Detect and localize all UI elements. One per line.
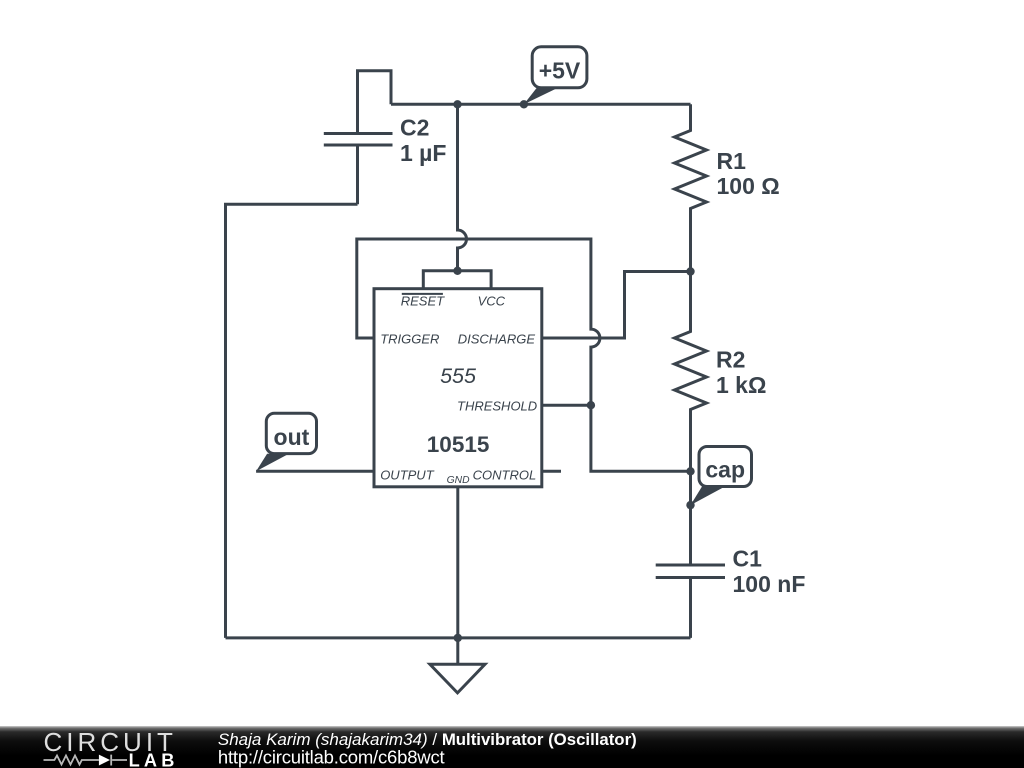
resistor R2 bbox=[675, 272, 707, 472]
node supply/VCC junction bbox=[453, 100, 461, 108]
node cap flag junction bbox=[686, 501, 694, 509]
wire bottom ground rail bbox=[226, 636, 691, 639]
capacitor C1 bbox=[656, 565, 725, 638]
svg-text:+5V: +5V bbox=[539, 58, 581, 84]
svg-text:C1: C1 bbox=[733, 546, 763, 572]
svg-text:cap: cap bbox=[705, 456, 745, 482]
wire cap node down to C1 bbox=[689, 471, 692, 565]
wire THRESHOLD stub bbox=[542, 404, 591, 407]
svg-text:100 Ω: 100 Ω bbox=[717, 173, 780, 199]
svg-text:10515: 10515 bbox=[427, 432, 490, 457]
svg-text:LAB: LAB bbox=[129, 750, 179, 768]
svg-text:CONTROL: CONTROL bbox=[473, 468, 537, 483]
wire DISCHARGE to R1/R2 junction bbox=[542, 272, 691, 339]
wire CONTROL stub bbox=[542, 470, 561, 473]
svg-text:R2: R2 bbox=[716, 347, 745, 373]
wire VCC drop from rail with hop over trigger wire bbox=[458, 104, 467, 270]
svg-text:555: 555 bbox=[440, 364, 477, 388]
svg-text:100 nF: 100 nF bbox=[733, 571, 806, 597]
svg-text:C2: C2 bbox=[400, 115, 429, 141]
svg-text:GND: GND bbox=[447, 475, 470, 486]
IC U1 555 timer box bbox=[374, 289, 542, 487]
cap flag bbox=[691, 447, 752, 506]
svg-text:OUTPUT: OUTPUT bbox=[380, 468, 435, 483]
svg-text:RESET: RESET bbox=[401, 294, 445, 309]
logo resistor-diode glyph bbox=[44, 755, 128, 766]
resistor R1 bbox=[675, 104, 707, 271]
svg-text:VCC: VCC bbox=[478, 294, 506, 309]
svg-text:R1: R1 bbox=[717, 148, 747, 174]
svg-text:DISCHARGE: DISCHARGE bbox=[458, 332, 536, 347]
wire GND pin to ground bbox=[456, 487, 459, 665]
svg-text:http://circuitlab.com/c6b8wct: http://circuitlab.com/c6b8wct bbox=[218, 747, 445, 768]
node cap/threshold junction bbox=[686, 467, 694, 475]
wire TRIGGER to THRESHOLD net with hop over discharge wire bbox=[357, 239, 691, 471]
+5V power flag bbox=[524, 47, 587, 105]
wire OUTPUT to out flag bbox=[256, 470, 374, 473]
node RESET/VCC bracket junction bbox=[453, 267, 461, 275]
svg-text:out: out bbox=[274, 424, 310, 450]
node R1/R2/discharge junction bbox=[686, 267, 694, 275]
wire left return loop bbox=[226, 204, 358, 638]
node ground junction bbox=[454, 634, 462, 642]
wire RESET/VCC bracket bbox=[423, 271, 491, 289]
wire +5V supply rail bbox=[391, 103, 691, 106]
svg-text:1 kΩ: 1 kΩ bbox=[716, 372, 766, 398]
node +5V flag junction bbox=[520, 100, 528, 108]
footer bar bbox=[0, 726, 1024, 768]
out flag bbox=[256, 413, 316, 471]
svg-text:TRIGGER: TRIGGER bbox=[380, 332, 439, 347]
svg-text:1 µF: 1 µF bbox=[400, 140, 446, 166]
node THRESHOLD junction bbox=[587, 401, 595, 409]
ground bbox=[430, 664, 485, 693]
capacitor C2 bbox=[324, 134, 393, 205]
wire C2 top lead step to supply rail bbox=[358, 71, 392, 134]
svg-text:THRESHOLD: THRESHOLD bbox=[457, 398, 537, 413]
